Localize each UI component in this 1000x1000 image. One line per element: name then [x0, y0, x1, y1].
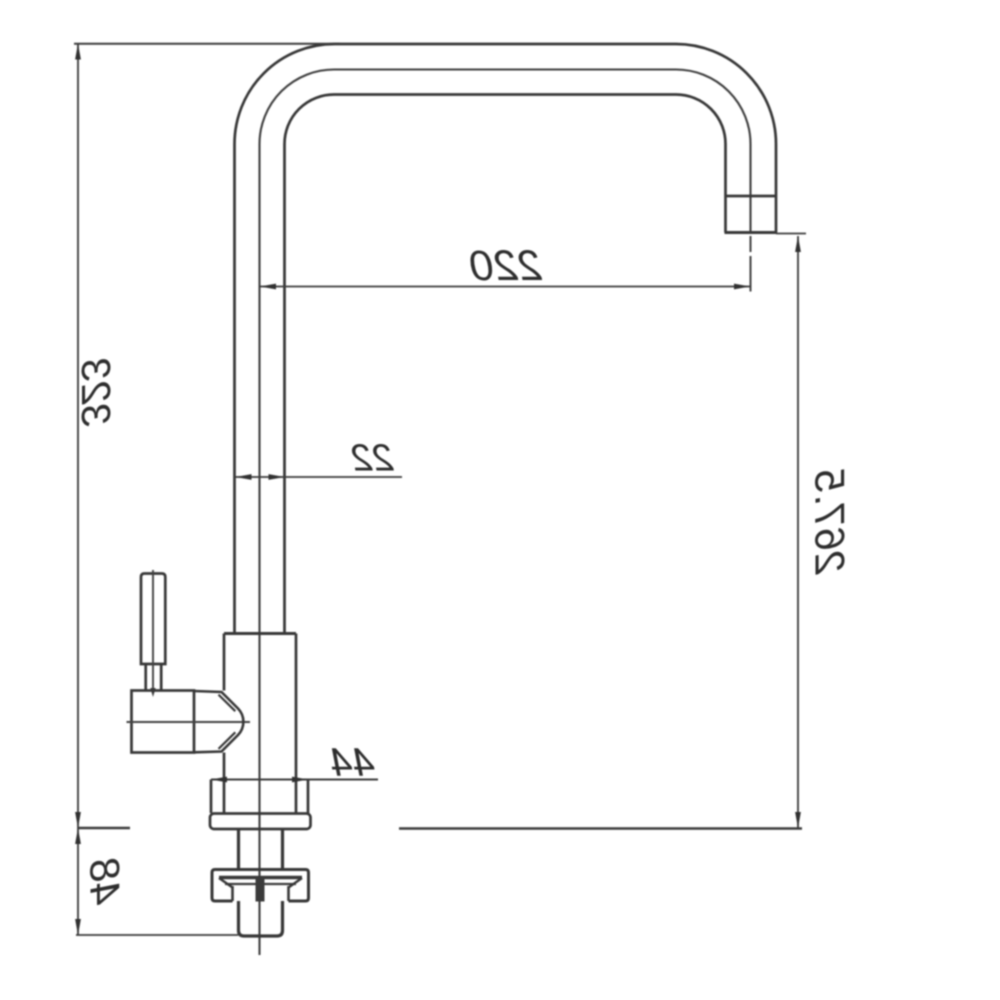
dimension 48 line	[75, 828, 81, 935]
dimension 44 label	[330, 741, 375, 785]
spout centerline dashed extension	[750, 236, 752, 292]
svg-text:22: 22	[351, 438, 394, 480]
dimension 22 label	[351, 438, 394, 480]
dimension 220 line	[260, 284, 750, 290]
dimension 22 line	[236, 474, 403, 480]
valve cone connector	[194, 691, 243, 752]
threaded shank upper	[239, 829, 283, 869]
faucet body top edge	[224, 632, 296, 635]
mounting nut outer	[212, 870, 309, 902]
handle stem	[146, 664, 162, 691]
handle valve body	[132, 691, 195, 753]
escutcheon right side	[307, 780, 310, 814]
dimension 48 label	[82, 858, 129, 905]
base flange	[210, 814, 311, 830]
dimension 44 line	[211, 777, 378, 783]
dimension 323 line	[75, 44, 81, 829]
escutcheon left side	[210, 780, 213, 814]
valve horizontal centerline	[127, 721, 251, 723]
svg-text:323: 323	[73, 359, 119, 428]
threaded rod section	[256, 877, 265, 902]
countertop line left	[78, 827, 130, 829]
dimension 323 extension line top	[74, 43, 340, 45]
spout aerator seam	[726, 195, 777, 198]
dimension 323 label	[73, 359, 119, 428]
faucet tube outer contour	[235, 44, 777, 633]
faucet body left side	[223, 634, 226, 814]
bottom reference line	[76, 934, 238, 936]
svg-text:44: 44	[330, 741, 375, 785]
dimension 220 label	[470, 242, 543, 290]
dimension 267.5 line	[795, 236, 801, 828]
handle grip	[141, 574, 165, 665]
threaded shank lower	[239, 901, 283, 936]
faucet tube inner contour	[285, 94, 726, 633]
dimension 267.5 label	[807, 469, 854, 576]
faucet body right side	[295, 634, 298, 814]
handle grip centerline	[150, 570, 155, 697]
svg-text:220: 220	[470, 242, 543, 290]
tube centerline	[260, 69, 751, 955]
dimension 267.5 extension line	[776, 233, 806, 235]
countertop line right	[399, 827, 802, 829]
mounting nut washer	[219, 878, 302, 902]
spout end edge	[725, 231, 778, 234]
svg-text:48: 48	[82, 858, 129, 905]
svg-text:267.5: 267.5	[807, 469, 854, 576]
